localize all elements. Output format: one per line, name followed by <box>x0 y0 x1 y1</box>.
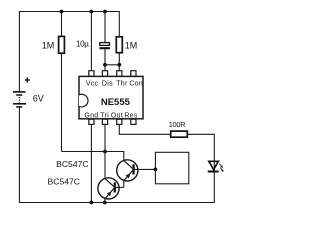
svg-text:BC547C: BC547C <box>48 177 80 187</box>
svg-text:NE555: NE555 <box>101 97 131 108</box>
svg-text:1M: 1M <box>125 40 138 50</box>
svg-text:Vcc: Vcc <box>86 81 99 88</box>
svg-text:Tri: Tri <box>100 112 109 119</box>
svg-text:Res: Res <box>124 112 138 119</box>
svg-text:Gnd: Gnd <box>84 112 98 119</box>
svg-text:Out: Out <box>111 112 123 119</box>
svg-text:BC547C: BC547C <box>56 159 88 169</box>
svg-text:6V: 6V <box>33 94 44 104</box>
svg-text:10µ: 10µ <box>76 40 89 49</box>
svg-text:1M: 1M <box>42 40 55 50</box>
svg-text:Dis: Dis <box>102 81 113 88</box>
svg-text:100R: 100R <box>169 120 186 129</box>
svg-text:Con: Con <box>129 81 143 88</box>
svg-text:Thr: Thr <box>116 81 128 88</box>
